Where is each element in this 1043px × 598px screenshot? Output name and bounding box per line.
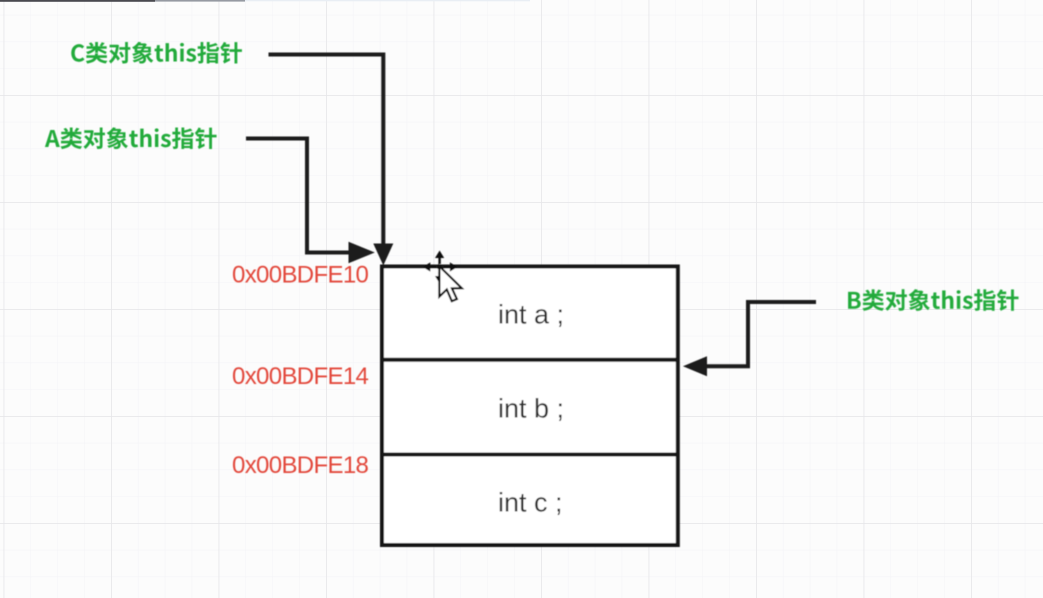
svg-text:0x00BDFE10: 0x00BDFE10 bbox=[232, 262, 369, 289]
divider between int b and int c bbox=[382, 453, 678, 457]
memory box bbox=[382, 267, 678, 546]
svg-text:0x00BDFE18: 0x00BDFE18 bbox=[232, 452, 369, 479]
svg-text:0x00BDFE14: 0x00BDFE14 bbox=[232, 363, 369, 390]
svg-text:int b ;: int b ; bbox=[498, 394, 564, 424]
mouse pointer bbox=[439, 266, 461, 301]
svg-text:int a ;: int a ; bbox=[498, 300, 564, 330]
label B类对象this指针 bbox=[848, 289, 1018, 311]
arrow from A label to box left bbox=[246, 139, 352, 253]
arrow from C label to box top bbox=[269, 55, 384, 246]
move cursor cross bbox=[423, 251, 458, 284]
divider between int a and int b bbox=[382, 358, 678, 362]
arrow from B label to box right bbox=[706, 302, 816, 366]
label A类对象this指针 bbox=[45, 127, 217, 149]
arrowhead B (left) bbox=[683, 356, 707, 376]
arrowhead C (down) bbox=[373, 244, 393, 266]
svg-text:int c ;: int c ; bbox=[498, 488, 563, 518]
arrowhead A (right) bbox=[349, 242, 375, 263]
label C类对象this指针 bbox=[71, 42, 242, 64]
